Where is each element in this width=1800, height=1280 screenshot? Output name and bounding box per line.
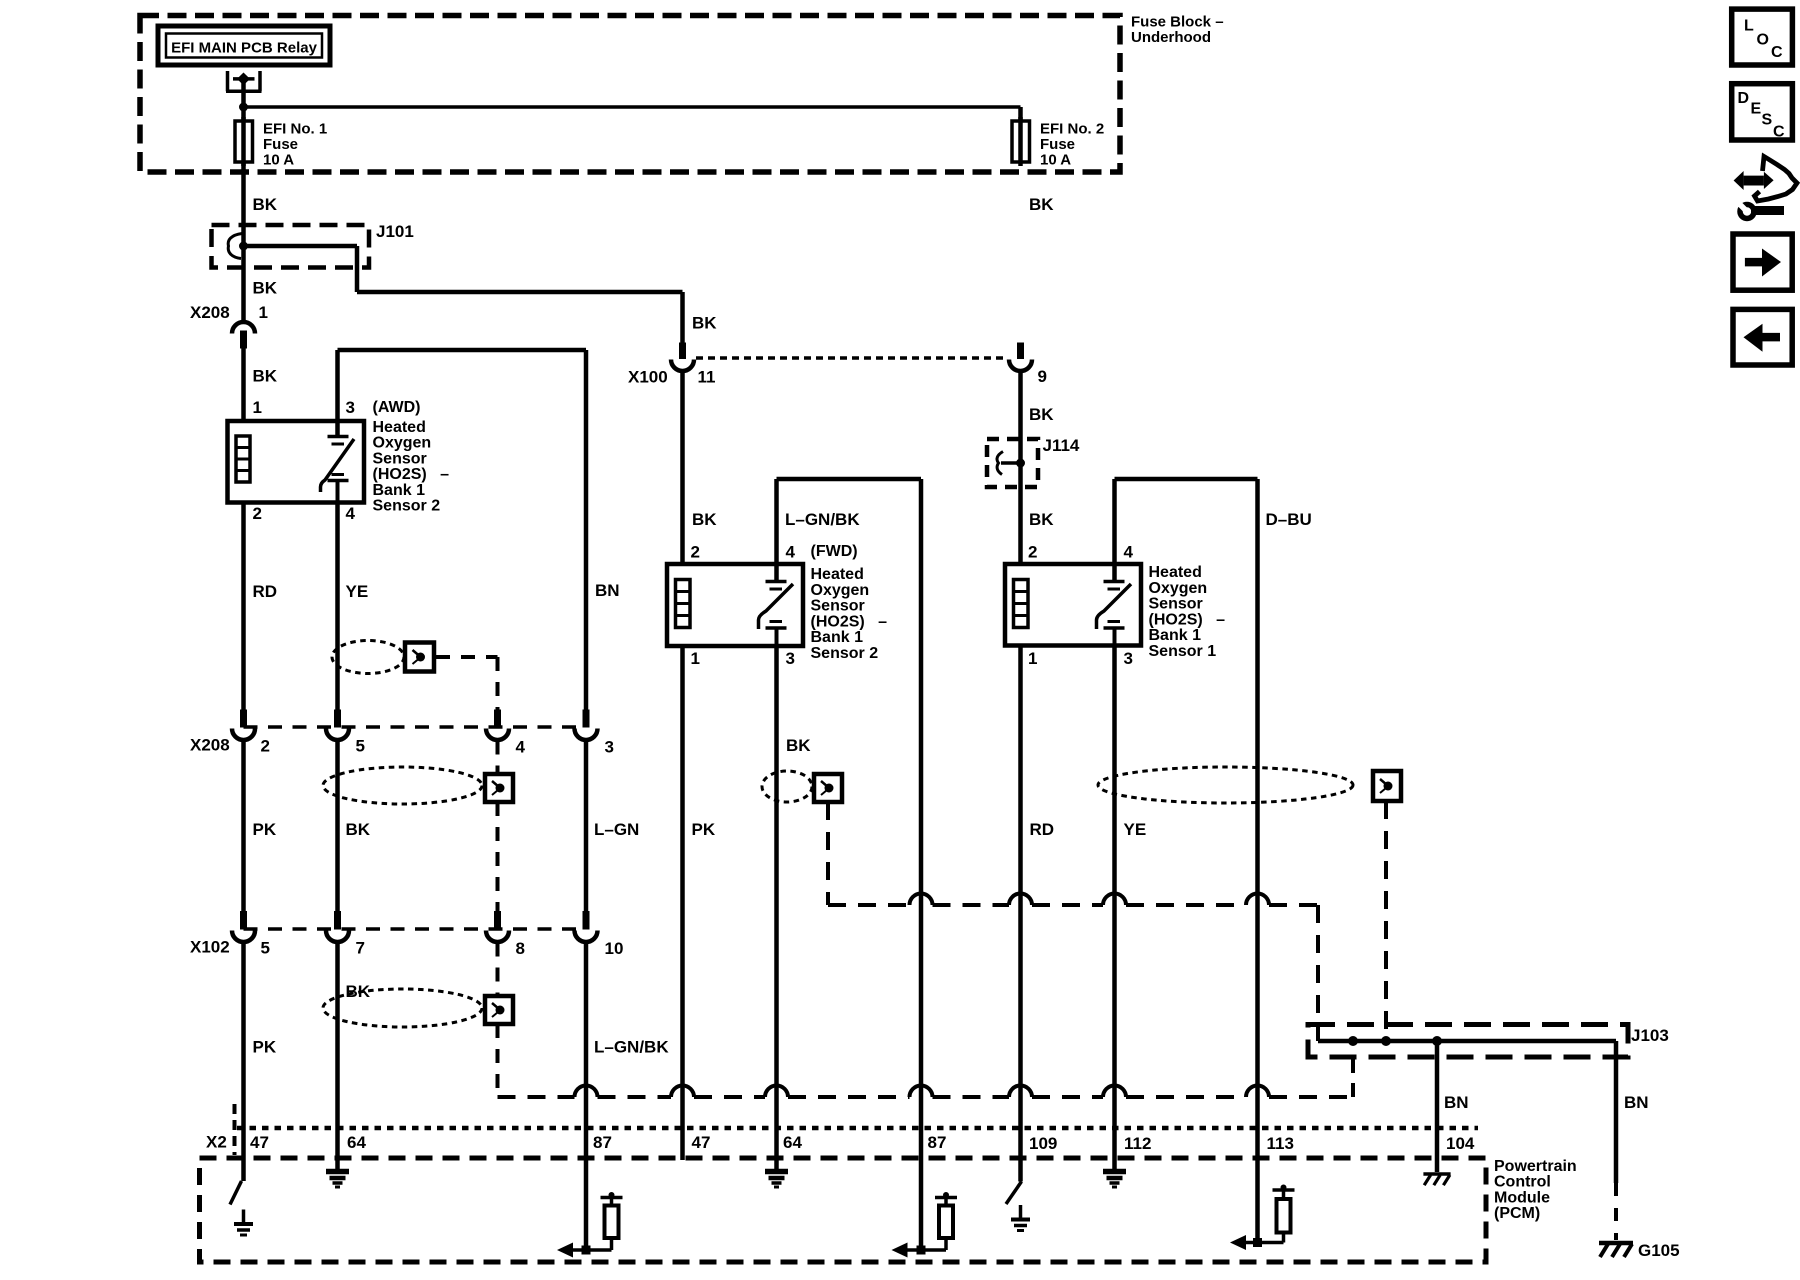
svg-text:Heated: Heated [1149, 564, 1202, 581]
U2 name text [811, 566, 888, 662]
heater element inside U2 [676, 580, 691, 628]
svg-text:2: 2 [261, 737, 270, 756]
svg-text:(PCM): (PCM) [1494, 1205, 1540, 1222]
svg-text:7: 7 [356, 939, 365, 958]
pin number 4 [1124, 543, 1134, 562]
node on J103 (route B) [1381, 1036, 1391, 1046]
relay K: EFI MAIN PCB Relay label box [158, 26, 330, 65]
pin number 1 (sensor AWD) [253, 398, 262, 417]
pin number 4 [786, 543, 796, 562]
svg-text:5: 5 [356, 737, 365, 756]
connector X102 pin 8 [486, 911, 509, 942]
svg-text:87: 87 [928, 1133, 947, 1152]
svg-text:Module: Module [1494, 1189, 1550, 1206]
svg-text:(AWD): (AWD) [373, 399, 421, 416]
splice J114 symbol [997, 452, 1025, 475]
svg-text:87: 87 [593, 1133, 612, 1152]
svg-text:5: 5 [261, 939, 270, 958]
fuse F2: EFI No. 2 10A [1012, 117, 1030, 166]
svg-text:RD: RD [1030, 820, 1055, 839]
svg-text:BN: BN [1624, 1093, 1649, 1112]
svg-text:BK: BK [1029, 405, 1054, 424]
U2 label (FWD) [811, 543, 858, 560]
pin number 3 (sensor AWD) [346, 398, 355, 417]
shield ellipse (U2 pin3) [762, 771, 812, 802]
svg-text:Sensor 2: Sensor 2 [373, 498, 441, 515]
fuse F2 label [1040, 121, 1104, 169]
svg-text:10 A: 10 A [263, 152, 294, 169]
X2 pin labels [250, 1133, 1475, 1153]
pin 11 label [698, 368, 716, 387]
label BK (above X100/9) [1029, 195, 1054, 214]
svg-text:Bank 1: Bank 1 [373, 482, 426, 499]
shield drain dashed X208/4 to X102/8 [496, 741, 500, 912]
wire X208/5 to X102/7 (BK) [335, 741, 340, 912]
svg-text:Powertrain: Powertrain [1494, 1158, 1577, 1175]
shield ellipse (below X208) [323, 767, 482, 804]
shield terminal box on drain [485, 774, 513, 802]
label PK [253, 1038, 277, 1057]
svg-text:3: 3 [346, 398, 355, 417]
sensor element inside U3 [1097, 564, 1132, 646]
pin number 2 [691, 543, 700, 562]
J114 label [1043, 436, 1080, 455]
label BK [253, 195, 278, 214]
svg-text:(HO2S) –: (HO2S) – [1149, 611, 1226, 628]
wire U2 pin3 down BK [774, 646, 779, 1170]
svg-text:PK: PK [253, 820, 277, 839]
connector X2 dotted line [235, 1104, 1479, 1155]
svg-text:Underhood: Underhood [1131, 29, 1211, 46]
svg-text:11: 11 [698, 368, 716, 387]
splice J103 box [1308, 1025, 1628, 1058]
connector X208 pin 5 [326, 710, 349, 741]
wire U3 pin4 loop to X2/113 [1115, 479, 1258, 1243]
svg-text:Sensor 1: Sensor 1 [1149, 643, 1217, 660]
label BN [1444, 1093, 1469, 1112]
svg-text:4: 4 [786, 543, 796, 562]
PCM label [1494, 1158, 1577, 1222]
label BK [253, 279, 278, 298]
pin 1 label [259, 303, 268, 322]
connector row X208 dashed line [244, 725, 587, 729]
svg-text:PK: PK [692, 820, 716, 839]
svg-text:4: 4 [1124, 543, 1134, 562]
svg-text:J101: J101 [376, 222, 414, 241]
svg-text:BN: BN [595, 581, 620, 600]
HO2S sensor U1 (AWD Bank1 Sensor2) box [228, 421, 365, 503]
svg-text:2: 2 [1028, 543, 1037, 562]
fuse block label [1131, 14, 1224, 47]
svg-text:(HO2S) –: (HO2S) – [373, 466, 450, 483]
label L-GN [594, 820, 639, 839]
splice J101 box [212, 225, 370, 268]
pin number 2 [253, 504, 262, 523]
pin number 1 [691, 649, 700, 668]
node on J103 (route C) [1348, 1036, 1358, 1046]
connector X100 pin 11 [671, 343, 694, 372]
label PK [692, 820, 716, 839]
svg-text:Bank 1: Bank 1 [1149, 627, 1202, 644]
shield terminal box [814, 774, 842, 802]
svg-text:BK: BK [786, 736, 811, 755]
svg-text:Fuse: Fuse [1040, 136, 1075, 153]
svg-text:3: 3 [1124, 649, 1133, 668]
label BK (above X100/11) [692, 314, 717, 333]
svg-text:EFI MAIN PCB Relay: EFI MAIN PCB Relay [171, 40, 318, 57]
connector X208 pin 1 [232, 322, 255, 349]
wire U1 pin3 loop to BN column [338, 350, 587, 710]
svg-text:47: 47 [250, 1133, 269, 1152]
drain up into J103 [1351, 1057, 1355, 1097]
X100 connector dotted line [696, 356, 1007, 360]
svg-text:X2: X2 [206, 1133, 227, 1152]
relay output terminal bracket [226, 71, 262, 91]
svg-text:Oxygen: Oxygen [811, 582, 870, 599]
U1 name text [373, 419, 450, 515]
svg-text:47: 47 [692, 1133, 711, 1152]
svg-text:4: 4 [516, 738, 526, 757]
svg-text:Sensor: Sensor [811, 598, 865, 615]
ground G105 [1599, 1243, 1633, 1257]
svg-text:YE: YE [346, 582, 369, 601]
wire U3 pin1 down RD [1018, 646, 1023, 1182]
PCM switch to ground (pin 109) [1006, 1182, 1030, 1231]
svg-text:4: 4 [346, 504, 356, 523]
svg-text:109: 109 [1029, 1134, 1057, 1153]
PCM box [200, 1158, 1487, 1262]
svg-text:J103: J103 [1631, 1026, 1669, 1045]
wire U1 pin4 down (YE) [335, 503, 340, 710]
pin number 3 [1124, 649, 1133, 668]
connector X102 pin 7 [326, 911, 349, 942]
label BK [346, 982, 371, 1001]
svg-text:BK: BK [346, 982, 371, 1001]
PCM switch to ground (pin 47) [230, 1181, 253, 1235]
svg-text:BK: BK [346, 820, 371, 839]
HO2S sensor U2 (FWD Bank1 Sensor2) box [667, 564, 803, 646]
wire X100/9 down through J114 [1018, 371, 1023, 564]
svg-text:BK: BK [692, 314, 717, 333]
wire X102/7 down BK [335, 943, 340, 1171]
X100 label [628, 368, 668, 387]
svg-text:Oxygen: Oxygen [1149, 580, 1208, 597]
svg-text:Oxygen: Oxygen [373, 435, 432, 452]
label BK [1029, 405, 1054, 424]
svg-text:J114: J114 [1043, 436, 1080, 455]
label RD [253, 582, 278, 601]
svg-text:X100: X100 [628, 368, 668, 387]
svg-text:Control: Control [1494, 1174, 1551, 1191]
X2 label [206, 1133, 227, 1152]
svg-text:Bank 1: Bank 1 [811, 629, 864, 646]
shield drain dashed X102/8 down [496, 943, 500, 1098]
svg-text:E: E [1751, 101, 1762, 118]
PCM pullup + arrow (pin 87 fwd) [892, 1192, 958, 1258]
svg-text:L: L [1744, 18, 1754, 35]
svg-text:C: C [1771, 44, 1783, 61]
svg-text:X208: X208 [190, 303, 230, 322]
svg-text:C: C [1773, 124, 1785, 141]
wire BN to G105 [1614, 1041, 1619, 1240]
svg-text:BK: BK [253, 367, 278, 386]
fuse F1: EFI No. 1 10A [235, 117, 253, 166]
wire X208/2 to X102/5 (PK) [241, 741, 246, 912]
svg-text:Heated: Heated [811, 566, 864, 583]
PCM ground (pin 64) [326, 1172, 349, 1188]
shield ellipse (YE wire) [332, 641, 404, 674]
J103 label [1631, 1026, 1669, 1045]
fuse F1 label [263, 121, 327, 169]
wire relay to junction [241, 79, 246, 121]
svg-text:BK: BK [1029, 510, 1054, 529]
sensor element inside U1 [321, 421, 355, 503]
svg-text:BK: BK [253, 279, 278, 298]
connector X102 pin 10 [575, 911, 598, 942]
shield drain route A to J103 [828, 802, 1318, 1041]
shield terminal box [405, 643, 434, 672]
connector row X102 dashed line [244, 927, 587, 931]
X102 label [190, 938, 230, 957]
svg-text:D–BU: D–BU [1266, 510, 1312, 529]
svg-text:L–GN: L–GN [594, 820, 639, 839]
svg-text:104: 104 [1446, 1134, 1475, 1153]
svg-text:1: 1 [259, 303, 268, 322]
label BK [786, 736, 811, 755]
svg-text:O: O [1757, 32, 1769, 49]
label D-BU [1266, 510, 1312, 529]
label BN [1624, 1093, 1649, 1112]
PCM ground (pin 64 fwd) [765, 1172, 788, 1188]
splice J101 symbol [228, 234, 248, 259]
label BK (below J114) [1029, 510, 1054, 529]
svg-text:Sensor: Sensor [1149, 596, 1203, 613]
svg-text:10 A: 10 A [1040, 152, 1071, 169]
svg-text:1: 1 [253, 398, 262, 417]
svg-text:D: D [1738, 90, 1750, 107]
sensor element inside U2 [759, 564, 794, 646]
svg-text:X102: X102 [190, 938, 230, 957]
svg-text:1: 1 [1028, 649, 1037, 668]
wire X102/5 down PK [241, 943, 246, 1182]
pin labels 2 5 4 3 [261, 737, 614, 757]
svg-text:Fuse Block –: Fuse Block – [1131, 14, 1224, 31]
wire J101 branch to X100 pin 11 [244, 246, 683, 343]
heater element inside U1 [236, 436, 250, 482]
icon DESC [1732, 84, 1793, 141]
icon quick-link (hand with arrows and wrench) [1734, 157, 1797, 219]
svg-text:S: S [1762, 112, 1773, 129]
svg-text:(FWD): (FWD) [811, 543, 858, 560]
svg-text:(HO2S) –: (HO2S) – [811, 613, 888, 630]
shield drain route to J103 (dashed with hops) [498, 1095, 1354, 1099]
wire X208/1 to sensor [241, 349, 246, 422]
connector X208 pin 2 [232, 710, 255, 741]
svg-text:64: 64 [783, 1133, 802, 1152]
label BK [346, 820, 371, 839]
wire U3 pin3 down YE [1112, 646, 1117, 1171]
pin number 2 [1028, 543, 1037, 562]
hops over wires (route A) [910, 894, 1270, 905]
splice J114 box [987, 439, 1038, 487]
svg-text:RD: RD [253, 582, 278, 601]
svg-text:8: 8 [516, 939, 525, 958]
wire feed to fuse 2 [244, 107, 1021, 121]
svg-text:10: 10 [605, 939, 624, 958]
wire BN to pin 104 [1435, 1041, 1440, 1172]
label BK [692, 510, 717, 529]
label BK below X208/1 [253, 367, 278, 386]
svg-text:Sensor 2: Sensor 2 [811, 645, 879, 662]
heater element inside U3 [1014, 580, 1029, 628]
svg-text:BK: BK [253, 195, 278, 214]
svg-text:L–GN/BK: L–GN/BK [594, 1038, 669, 1057]
wire X208/3 to X102/10 (L-GN) [584, 741, 589, 912]
svg-text:BK: BK [692, 510, 717, 529]
svg-text:PK: PK [253, 1038, 277, 1057]
wire fuse1 to J101 [241, 162, 246, 246]
shield ellipse (U3 pins) [1098, 767, 1353, 803]
svg-text:L–GN/BK: L–GN/BK [785, 510, 860, 529]
svg-text:BN: BN [1444, 1093, 1469, 1112]
connector X100 pin 9 [1009, 343, 1032, 372]
svg-text:113: 113 [1267, 1134, 1294, 1153]
pin 9 label [1038, 367, 1047, 386]
svg-text:2: 2 [253, 504, 262, 523]
svg-text:X208: X208 [190, 736, 230, 755]
label YE [1124, 820, 1147, 839]
wire X102/10 down L-GN/BK [584, 943, 589, 1251]
U1 label (AWD) [373, 399, 421, 416]
shield terminal box [1373, 771, 1401, 801]
wire U1 pin2 down (RD) [241, 503, 246, 710]
shield terminal box on drain [485, 996, 513, 1024]
svg-text:YE: YE [1124, 820, 1147, 839]
shield ellipse (below X102) [323, 989, 482, 1027]
connector X208 pin 3 [575, 710, 598, 741]
svg-text:EFI No. 1: EFI No. 1 [263, 121, 327, 138]
label RD [1030, 820, 1055, 839]
X208 label [190, 736, 230, 755]
svg-text:Sensor: Sensor [373, 450, 427, 467]
J101 label [376, 222, 414, 241]
pin labels 5 7 8 10 [261, 939, 624, 959]
icon forward arrow [1733, 234, 1792, 290]
PCM pullup + arrow (pin 87) [557, 1192, 623, 1258]
icon back arrow [1733, 309, 1792, 365]
PCM ground (pin 112) [1103, 1172, 1126, 1188]
svg-text:64: 64 [347, 1133, 366, 1152]
pin number 3 [786, 649, 795, 668]
svg-text:3: 3 [605, 738, 614, 757]
wire U2 pin4 loop to X2/87 [777, 479, 922, 1250]
svg-text:1: 1 [691, 649, 700, 668]
U3 name text [1149, 564, 1226, 660]
ground (pin 104) [1423, 1174, 1450, 1185]
svg-text:Heated: Heated [373, 419, 426, 436]
svg-text:112: 112 [1124, 1134, 1151, 1153]
HO2S sensor U3 (Bank1 Sensor1) box [1005, 564, 1141, 646]
shield drain route B to J103 [1384, 801, 1388, 1041]
wire J101 down [241, 246, 246, 322]
icon LOC [1732, 9, 1793, 65]
node on J103 (BN to 104) [1432, 1036, 1442, 1046]
node: feed junction [239, 103, 248, 112]
svg-text:G105: G105 [1638, 1241, 1680, 1260]
svg-text:3: 3 [786, 649, 795, 668]
PCM pullup + arrow (pin 113) [1230, 1185, 1295, 1251]
connector X208 pin 4 [486, 710, 509, 741]
G105 label [1638, 1241, 1680, 1260]
label BN [595, 581, 620, 600]
label L-GN/BK (pin4 col) [785, 510, 860, 529]
svg-text:2: 2 [691, 543, 700, 562]
hops over wires [575, 1086, 1270, 1098]
wire X100/11 to FWD sensor pin 2 [680, 371, 685, 564]
label PK [253, 820, 277, 839]
svg-text:Fuse: Fuse [263, 136, 298, 153]
label YE [346, 582, 369, 601]
connector X102 pin 5 [232, 911, 255, 942]
shield drain dashed to X208/4 [436, 657, 498, 710]
J103 bus line [1318, 1039, 1616, 1044]
fuse block underhood (dashed box) [140, 16, 1120, 173]
pin number 4 [346, 504, 356, 523]
svg-text:9: 9 [1038, 367, 1047, 386]
X208 label [190, 303, 230, 322]
wire U2 pin1 down PK [680, 646, 685, 1160]
pin number 1 [1028, 649, 1037, 668]
label L-GN/BK [594, 1038, 669, 1057]
svg-text:BK: BK [1029, 195, 1054, 214]
svg-text:EFI No. 2: EFI No. 2 [1040, 121, 1104, 138]
